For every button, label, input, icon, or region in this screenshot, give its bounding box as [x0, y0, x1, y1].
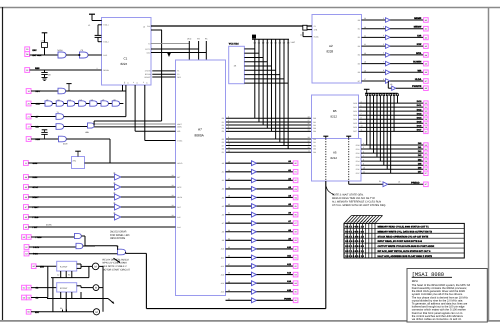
svg-text:D3: D3	[266, 42, 268, 45]
svg-text:U3: U3	[113, 212, 115, 215]
svg-text:R4: R4	[68, 273, 70, 276]
svg-text:6: 6	[363, 150, 364, 153]
svg-text:39: 39	[228, 280, 230, 283]
svg-text:U3: U3	[113, 182, 115, 185]
svg-text:A15: A15	[177, 216, 180, 219]
svg-text:9: 9	[363, 162, 364, 165]
svg-text:C8: C8	[48, 74, 50, 77]
svg-text:A14: A14	[177, 226, 180, 229]
svg-text:28: 28	[228, 186, 230, 189]
svg-text:A13: A13	[221, 273, 224, 276]
svg-text:INT ACK, INST FETCH, HLTA STAT: INT ACK, INST FETCH, HLTA STATUS BIT OUT…	[378, 250, 432, 253]
svg-text:B6: B6	[358, 71, 360, 74]
svg-text:F2: F2	[177, 73, 179, 76]
svg-text:22: 22	[300, 34, 302, 37]
svg-text:A6: A6	[222, 213, 224, 216]
svg-text:DO4: DO4	[417, 116, 422, 119]
svg-text:26: 26	[228, 169, 230, 172]
svg-text:D0: D0	[254, 42, 256, 45]
svg-text:HLDA: HLDA	[314, 35, 320, 38]
svg-text:D1: D1	[222, 121, 224, 124]
svg-text:11: 11	[308, 143, 310, 146]
svg-text:7: 7	[363, 154, 364, 157]
svg-text:20: 20	[364, 52, 366, 55]
svg-text:DI2: DI2	[313, 144, 316, 147]
svg-text:A15: A15	[221, 291, 224, 294]
svg-text:4: 4	[228, 119, 229, 122]
svg-text:13: 13	[172, 194, 174, 197]
svg-text:0 0 0 1 0 0 0 1 0 0: 0 0 0 1 0 0 0 1 0 0	[345, 230, 364, 233]
svg-text:DO0: DO0	[356, 144, 360, 147]
svg-text:XTAL1: XTAL1	[103, 24, 108, 27]
svg-text:U3: U3	[113, 172, 115, 175]
svg-text:DI3: DI3	[313, 127, 316, 130]
svg-text:M: M	[95, 287, 97, 290]
svg-text:25: 25	[228, 160, 230, 163]
svg-text:U4: U4	[68, 98, 70, 101]
svg-text:F1TTL: F1TTL	[145, 48, 150, 51]
svg-text:D4: D4	[270, 42, 272, 45]
svg-text:DO0: DO0	[353, 102, 357, 105]
svg-text:D6: D6	[279, 42, 281, 45]
svg-text:10: 10	[228, 143, 230, 146]
svg-text:DO0: DO0	[417, 100, 422, 103]
svg-text:13: 13	[308, 136, 310, 139]
svg-text:B1: B1	[358, 28, 360, 31]
svg-text:HALT ACK, ADDRESS BUS FLOAT HI: HALT ACK, ADDRESS BUS FLOAT HIGH Z STATE	[378, 255, 433, 258]
svg-text:DO5: DO5	[353, 122, 357, 125]
svg-text:D7: D7	[222, 144, 224, 147]
svg-text:36: 36	[228, 255, 230, 258]
svg-text:VCC U14: VCC U14	[229, 42, 239, 45]
svg-text:6: 6	[133, 81, 134, 84]
svg-text:SYNC: SYNC	[177, 139, 183, 142]
svg-text:MEMR: MEMR	[414, 17, 421, 20]
svg-text:41: 41	[228, 297, 230, 300]
svg-text:PREAD: PREAD	[411, 181, 420, 184]
svg-text:DO2: DO2	[353, 110, 357, 113]
svg-text:17: 17	[308, 119, 310, 122]
svg-text:MOTOR START CIRCUIT: MOTOR START CIRCUIT	[103, 268, 131, 271]
svg-text:B5: B5	[333, 109, 337, 113]
svg-text:A12: A12	[221, 265, 224, 268]
svg-text:HOLD: HOLD	[177, 162, 183, 165]
svg-text:DI4: DI4	[313, 130, 316, 133]
svg-text:U8: U8	[113, 98, 115, 101]
svg-text:8: 8	[383, 69, 384, 72]
svg-text:M: M	[95, 311, 97, 314]
svg-text:D7: D7	[283, 42, 285, 45]
svg-text:DI2: DI2	[313, 124, 316, 127]
svg-text:8: 8	[363, 158, 364, 161]
svg-text:18: 18	[364, 69, 366, 72]
svg-text:RDYIN: RDYIN	[145, 73, 151, 76]
svg-text:DBIN: DBIN	[177, 126, 182, 129]
svg-text:DI4: DI4	[313, 151, 316, 154]
svg-text:2N-RK: 2N-RK	[46, 224, 52, 227]
svg-text:23: 23	[364, 26, 366, 29]
svg-text:INDICATORS: INDICATORS	[110, 237, 126, 240]
svg-text:9: 9	[361, 121, 362, 124]
svg-text:A11: A11	[221, 256, 224, 259]
svg-text:C1: C1	[124, 57, 128, 61]
svg-text:U6: U6	[91, 98, 93, 101]
svg-text:D0: D0	[222, 148, 224, 151]
svg-text:DO3: DO3	[353, 114, 357, 117]
svg-text:C2: C2	[57, 273, 59, 276]
svg-text:14: 14	[308, 129, 310, 132]
svg-text:DI0: DI0	[313, 117, 316, 120]
svg-text:D5: D5	[222, 138, 224, 141]
svg-text:K1 RLY: K1 RLY	[60, 266, 68, 269]
svg-text:OUTPUT WRITE CYCLE DATA BUS I/: OUTPUT WRITE CYCLE DATA BUS I/O PORT ADD…	[378, 245, 435, 248]
svg-text:U3: U3	[113, 192, 115, 195]
svg-text:11: 11	[361, 129, 363, 132]
svg-text:U7: U7	[102, 98, 104, 101]
svg-text:29: 29	[228, 195, 230, 198]
svg-text:33: 33	[228, 229, 230, 232]
svg-text:F1: F1	[177, 70, 179, 73]
svg-text:1 0 0 0 1 0 1 0 1 0: 1 0 0 0 1 0 1 0 1 0	[345, 255, 364, 258]
svg-text:B2: B2	[358, 36, 360, 39]
svg-text:M: M	[95, 266, 97, 269]
svg-text:A9: A9	[222, 239, 224, 242]
svg-text:DO4: DO4	[353, 118, 357, 121]
svg-text:13: 13	[172, 214, 174, 217]
svg-text:DO1: DO1	[356, 148, 360, 151]
svg-text:DO2: DO2	[417, 108, 422, 111]
svg-text:HLDA: HLDA	[177, 196, 183, 199]
svg-text:VCC: VCC	[187, 38, 192, 41]
svg-text:13: 13	[172, 174, 174, 177]
svg-text:A2: A2	[329, 44, 333, 48]
svg-text:DO3: DO3	[356, 156, 360, 159]
svg-text:7: 7	[228, 129, 229, 132]
svg-text:DO6: DO6	[417, 124, 422, 127]
svg-text:27: 27	[228, 177, 230, 180]
svg-text:DO4: DO4	[356, 160, 360, 163]
svg-text:D4: D4	[222, 130, 224, 133]
svg-text:10: 10	[361, 125, 363, 128]
svg-text:A2: A2	[222, 179, 224, 182]
svg-text:EXC: EXC	[32, 49, 37, 52]
svg-text:A5: A5	[333, 151, 337, 155]
svg-text:11: 11	[363, 170, 365, 173]
svg-text:INPUT READ, I/O PORT ADDR BYTE: INPUT READ, I/O PORT ADDR BYTE 2+3	[378, 240, 423, 243]
svg-text:B0: B0	[358, 19, 360, 22]
svg-text:74S04: 74S04	[57, 49, 62, 52]
svg-text:B7: B7	[358, 80, 360, 83]
svg-text:A1: A1	[222, 171, 224, 174]
svg-text:B3: B3	[358, 45, 360, 48]
svg-text:A0: A0	[222, 162, 224, 165]
svg-text:D2: D2	[222, 124, 224, 127]
svg-text:5: 5	[383, 43, 384, 46]
svg-text:38: 38	[228, 272, 230, 275]
svg-text:DO7: DO7	[353, 130, 357, 133]
svg-text:HLDA: HLDA	[415, 78, 422, 81]
svg-text:U3: U3	[57, 98, 59, 101]
svg-text:AT FULL SPEED WITH NO WAIT STA: AT FULL SPEED WITH NO WAIT STATES REQ.	[332, 204, 386, 207]
svg-text:2: 2	[383, 17, 384, 20]
svg-text:9: 9	[383, 78, 384, 81]
svg-text:2N-R: 2N-R	[63, 143, 68, 146]
svg-text:DO7: DO7	[356, 172, 360, 175]
svg-text:0 1 0 0 0 1 1 0 1 0: 0 1 0 0 0 1 1 0 1 0	[345, 240, 364, 243]
svg-text:13: 13	[172, 184, 174, 187]
svg-text:0 0 0 1 0 1 0 0 0 0: 0 0 0 1 0 1 0 0 0 0	[345, 245, 364, 248]
svg-text:D3: D3	[222, 127, 224, 130]
svg-text:U9: U9	[390, 83, 392, 86]
svg-text:RES: RES	[35, 67, 40, 70]
svg-text:DI1: DI1	[313, 141, 316, 144]
svg-text:8212: 8212	[331, 114, 338, 118]
svg-text:via ribbon cables at connector: via ribbon cables at connectors J1 and J…	[412, 318, 462, 321]
svg-text:5: 5	[143, 81, 144, 84]
svg-text:A14: A14	[221, 282, 224, 285]
svg-text:A7: A7	[198, 128, 202, 132]
svg-text:A4: A4	[222, 196, 224, 199]
svg-text:U2: U2	[46, 98, 48, 101]
svg-text:D8: D8	[287, 42, 289, 45]
svg-text:R2: R2	[379, 180, 381, 183]
svg-text:8: 8	[228, 136, 229, 139]
svg-text:B5: B5	[358, 62, 360, 65]
svg-text:13: 13	[172, 204, 174, 207]
svg-text:DI3: DI3	[313, 148, 316, 151]
svg-text:D5: D5	[274, 42, 276, 45]
svg-text:D6: D6	[222, 141, 224, 144]
svg-text:F2: F2	[314, 25, 316, 28]
svg-text:8224: 8224	[121, 62, 128, 66]
svg-text:D1: D1	[222, 151, 224, 154]
svg-text:8080A: 8080A	[195, 134, 205, 138]
svg-text:DO6: DO6	[356, 168, 360, 171]
svg-text:4: 4	[383, 34, 384, 37]
svg-text:C6: C6	[81, 49, 83, 52]
svg-text:A7: A7	[222, 222, 224, 225]
svg-text:4: 4	[363, 142, 364, 145]
svg-text:5: 5	[363, 146, 364, 149]
svg-text:8212: 8212	[331, 156, 338, 160]
svg-text:A3: A3	[222, 188, 224, 191]
svg-text:10: 10	[363, 166, 365, 169]
svg-text:9: 9	[309, 149, 310, 152]
svg-text:2: 2	[97, 67, 98, 70]
svg-text:R9: R9	[60, 307, 62, 310]
svg-text:PDBIN: PDBIN	[284, 297, 291, 300]
svg-text:12: 12	[308, 140, 310, 143]
svg-text:9: 9	[228, 140, 229, 143]
svg-text:34: 34	[228, 237, 230, 240]
svg-text:A5: A5	[222, 205, 224, 208]
svg-text:3: 3	[383, 26, 384, 29]
svg-text:MEMORY WRITE CYC, DATA BUS OUT: MEMORY WRITE CYC, DATA BUS OUTPUT EN T2	[378, 230, 433, 233]
svg-text:B4: B4	[358, 54, 360, 57]
svg-text:5: 5	[361, 104, 362, 107]
svg-text:XTAL2: XTAL2	[103, 41, 108, 44]
svg-text:RESIN: RESIN	[103, 69, 109, 72]
svg-text:PWRITE: PWRITE	[412, 85, 422, 88]
svg-text:DI1: DI1	[313, 121, 316, 124]
svg-text:MEMW: MEMW	[414, 26, 422, 29]
svg-text:DO1: DO1	[417, 104, 422, 107]
svg-text:INTA: INTA	[416, 52, 422, 55]
svg-text:37: 37	[228, 263, 230, 266]
svg-text:DO2: DO2	[356, 152, 360, 155]
svg-text:30: 30	[228, 203, 230, 206]
svg-text:OSC: OSC	[103, 54, 108, 57]
svg-text:16: 16	[308, 122, 310, 125]
svg-text:DO5: DO5	[417, 120, 422, 123]
svg-text:IOR: IOR	[417, 34, 421, 37]
svg-text:MPU: MPU	[412, 279, 418, 283]
svg-text:35: 35	[228, 246, 230, 249]
svg-text:DI0: DI0	[313, 138, 316, 141]
svg-text:DO6: DO6	[353, 126, 357, 129]
svg-text:F2: F2	[148, 42, 150, 45]
svg-text:A8: A8	[222, 231, 224, 234]
svg-text:DO3: DO3	[417, 112, 422, 115]
svg-text:U5: U5	[80, 98, 82, 101]
svg-text:BUSEN: BUSEN	[413, 61, 421, 64]
svg-text:21: 21	[364, 43, 366, 46]
svg-text:17: 17	[364, 78, 366, 81]
svg-text:7: 7	[361, 112, 362, 115]
svg-text:0 0 1 1 0 0 1 0 1 1: 0 0 1 1 0 0 1 0 1 1	[345, 250, 364, 253]
svg-text:3: 3	[228, 116, 229, 119]
svg-text:18: 18	[308, 116, 310, 119]
svg-text:DO1: DO1	[353, 106, 357, 109]
svg-text:D1: D1	[258, 42, 260, 45]
svg-text:12: 12	[228, 149, 230, 152]
svg-text:31: 31	[228, 212, 230, 215]
svg-text:STSTB: STSTB	[145, 70, 152, 73]
svg-text:40: 40	[228, 289, 230, 292]
svg-text:32: 32	[228, 220, 230, 223]
svg-text:5: 5	[228, 122, 229, 125]
svg-text:STACK READ OPERATION CYC OP 1S: STACK READ OPERATION CYC OP 1ST BYTE	[378, 235, 429, 238]
svg-text:0 1 0 1 0 0 0 1 1 0: 0 1 0 1 0 0 0 1 1 0	[345, 225, 364, 228]
svg-text:WR: WR	[417, 69, 421, 72]
svg-text:24: 24	[364, 17, 366, 20]
svg-text:U3: U3	[113, 202, 115, 205]
svg-text:6: 6	[228, 125, 229, 128]
svg-text:DO5: DO5	[356, 164, 360, 167]
svg-text:T1: T1	[57, 111, 59, 114]
svg-text:19: 19	[364, 61, 366, 64]
svg-text:4: 4	[361, 100, 362, 103]
svg-text:6: 6	[361, 108, 362, 111]
svg-text:DO7: DO7	[417, 128, 422, 131]
svg-text:A10: A10	[221, 248, 224, 251]
svg-text:K2 RLY: K2 RLY	[60, 287, 68, 290]
svg-text:MEMORY READ CYCLE, 8080 STATUS: MEMORY READ CYCLE, 8080 STATUS OUT T1	[378, 225, 430, 228]
svg-text:Y1: Y1	[88, 24, 90, 27]
svg-text:22: 22	[364, 35, 366, 38]
svg-text:10: 10	[143, 25, 145, 28]
svg-text:D2: D2	[262, 42, 264, 45]
svg-text:6: 6	[383, 52, 384, 55]
svg-text:8228: 8228	[327, 50, 334, 54]
svg-text:11: 11	[228, 146, 230, 149]
svg-text:10: 10	[308, 146, 310, 149]
svg-text:0 1 0 1 1 0 0 1 1 0: 0 1 0 1 1 0 0 1 1 0	[345, 235, 364, 238]
svg-text:7: 7	[383, 60, 384, 63]
svg-text:15: 15	[308, 125, 310, 128]
svg-text:8: 8	[361, 116, 362, 119]
svg-text:D0: D0	[222, 117, 224, 120]
svg-text:RESET: RESET	[145, 76, 152, 79]
